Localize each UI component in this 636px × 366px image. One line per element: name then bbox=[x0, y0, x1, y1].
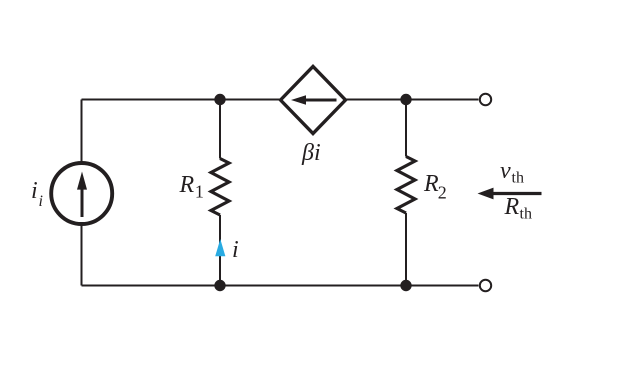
svg-text:th: th bbox=[520, 206, 532, 223]
svg-text:R: R bbox=[179, 172, 195, 198]
svg-text:th: th bbox=[512, 170, 524, 187]
svg-text:i: i bbox=[39, 193, 43, 210]
svg-text:v: v bbox=[500, 158, 511, 184]
svg-text:i: i bbox=[232, 237, 239, 263]
svg-text:i: i bbox=[31, 178, 38, 204]
svg-text:R: R bbox=[423, 171, 439, 197]
svg-text:R: R bbox=[504, 194, 520, 220]
svg-text:βi: βi bbox=[301, 140, 321, 166]
svg-text:2: 2 bbox=[438, 183, 447, 203]
svg-text:1: 1 bbox=[195, 181, 204, 201]
